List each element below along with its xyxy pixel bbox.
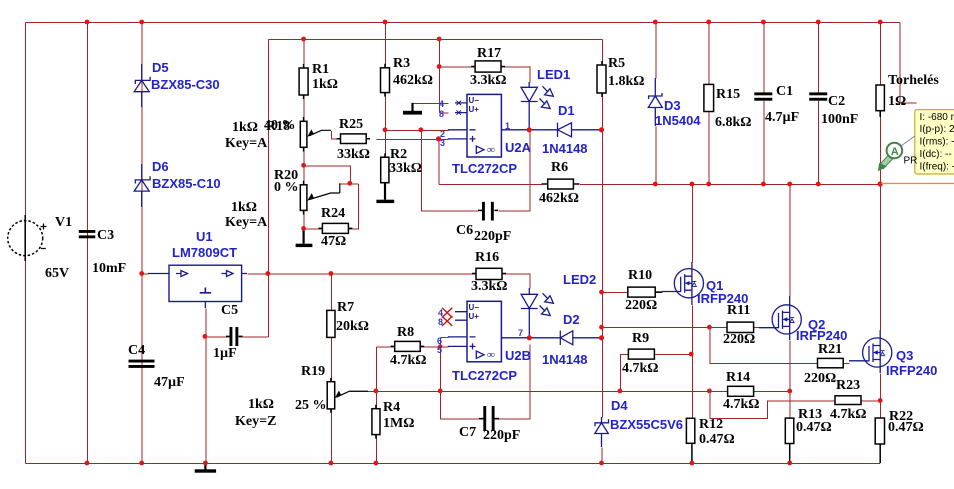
op-amp U2B box <box>448 301 530 362</box>
wire Q3 source column <box>880 374 882 419</box>
resistor R3 <box>381 64 390 97</box>
svg-text:7: 7 <box>518 328 523 338</box>
svg-text:D3: D3 <box>664 98 681 113</box>
svg-text:Key=A: Key=A <box>225 136 268 151</box>
wire R15 column <box>708 23 710 185</box>
resistor R2 <box>381 153 389 187</box>
wire gate2 to R21 vertical <box>710 328 850 364</box>
svg-text:D5: D5 <box>152 60 169 75</box>
capacitor C4 <box>129 360 155 368</box>
capacitor C6 <box>478 202 498 221</box>
ground under R20 chain <box>296 230 313 247</box>
svg-text:220Ω: 220Ω <box>625 298 657 313</box>
diode D3 <box>648 78 662 126</box>
wire U1 ground column <box>205 309 207 464</box>
svg-text:IRFP240: IRFP240 <box>697 291 748 306</box>
svg-text:C5: C5 <box>221 303 238 318</box>
ground at U2A pin4 <box>403 103 422 115</box>
svg-text:0.47Ω: 0.47Ω <box>699 432 735 447</box>
svg-text:462kΩ: 462kΩ <box>539 191 579 206</box>
wire R23 jog <box>710 391 881 418</box>
svg-text:TLC272CP: TLC272CP <box>452 161 517 176</box>
svg-text:220Ω: 220Ω <box>804 371 836 386</box>
svg-text:R1: R1 <box>312 62 329 77</box>
wire +9V rail <box>269 39 603 41</box>
svg-text:3.3kΩ: 3.3kΩ <box>470 73 507 88</box>
resistor R21 <box>818 358 844 367</box>
wire R17 row <box>440 67 530 83</box>
svg-text:U−: U− <box>469 96 480 105</box>
resistor R1 <box>299 64 308 99</box>
svg-text:R12: R12 <box>699 417 723 432</box>
svg-text:5: 5 <box>437 345 442 355</box>
wire top right corner drop <box>900 23 917 104</box>
svg-text:LM7809CT: LM7809CT <box>172 245 237 260</box>
wire R9 left jog <box>620 355 691 392</box>
zener diode D4 <box>595 417 609 447</box>
wire R5 top drop <box>602 40 604 66</box>
svg-text:C7: C7 <box>459 425 476 440</box>
wire supply vertical to R17 and pin8 <box>439 40 441 114</box>
svg-text:0.47Ω: 0.47Ω <box>796 420 832 435</box>
wire bottom ground rail <box>26 463 881 465</box>
regulator U1 box <box>148 265 247 308</box>
wire Q2 drain column <box>789 185 791 297</box>
svg-text:220pF: 220pF <box>474 229 511 244</box>
svg-text:65V: 65V <box>45 266 69 281</box>
svg-text:1.8kΩ: 1.8kΩ <box>608 74 645 89</box>
LED1 <box>521 82 554 130</box>
svg-text:∞: ∞ <box>487 349 495 361</box>
svg-text:U1: U1 <box>196 229 213 244</box>
svg-text:R5: R5 <box>608 56 625 71</box>
wire R1 R18 R20 column <box>303 40 305 242</box>
LED2 <box>521 288 554 338</box>
svg-text:R2: R2 <box>390 147 407 162</box>
svg-text:D6: D6 <box>152 159 169 174</box>
capacitor C5 <box>226 327 243 346</box>
svg-text:R17: R17 <box>477 46 501 61</box>
svg-text:C4: C4 <box>128 343 145 358</box>
load resistor Torheles <box>876 85 884 117</box>
wire R18 wiper to R25 <box>332 131 341 139</box>
resistor R22 <box>875 418 884 463</box>
no-connect X marks U2B pins 4 8 <box>442 308 452 326</box>
op-amp U2A box <box>448 94 529 157</box>
wire top supply rail <box>26 22 901 24</box>
wire D3 bottom <box>655 127 657 185</box>
svg-text:R6: R6 <box>551 160 568 175</box>
svg-text:BZX85-C10: BZX85-C10 <box>152 176 221 191</box>
svg-text:462kΩ: 462kΩ <box>393 73 433 88</box>
svg-text:IRFP240: IRFP240 <box>796 328 847 343</box>
svg-text:R10: R10 <box>628 268 652 283</box>
svg-text:C3: C3 <box>97 228 114 243</box>
svg-text:D1: D1 <box>558 103 575 118</box>
svg-text:220Ω: 220Ω <box>723 332 755 347</box>
wire R11 row <box>602 327 760 329</box>
svg-text:4.7kΩ: 4.7kΩ <box>723 397 760 412</box>
svg-text:U2B: U2B <box>505 348 531 363</box>
svg-text:100nF: 100nF <box>821 112 858 127</box>
svg-text:U+: U+ <box>469 105 480 114</box>
wire Q1 source column <box>691 306 693 419</box>
wire R7 R19 column <box>330 274 332 464</box>
wire C6 branch <box>421 130 530 211</box>
svg-text:R24: R24 <box>321 206 345 221</box>
wire load column <box>880 23 882 185</box>
resistor R14 <box>728 386 754 396</box>
wire pin6 vertical <box>440 337 442 391</box>
svg-text:33kΩ: 33kΩ <box>389 161 422 176</box>
svg-text:V1: V1 <box>55 215 72 230</box>
resistor R17 <box>471 61 505 72</box>
svg-text:47µF: 47µF <box>154 375 185 390</box>
svg-text:1MΩ: 1MΩ <box>383 416 414 431</box>
wire pin8 stub <box>440 112 449 114</box>
svg-text:D4: D4 <box>611 398 628 413</box>
resistor R9 <box>628 349 654 359</box>
labels black <box>45 46 939 447</box>
svg-text:1µF: 1µF <box>213 346 237 361</box>
svg-text:I(p-p): 2.: I(p-p): 2. <box>920 124 954 135</box>
wire pin2 row <box>386 129 449 131</box>
wire C3 column <box>87 23 89 464</box>
svg-text:Torhelés: Torhelés <box>888 73 939 88</box>
wire D5/D6 column <box>141 23 143 464</box>
wire R3 R2 column <box>385 23 387 158</box>
resistor R24 <box>319 223 353 233</box>
svg-text:R7: R7 <box>337 300 354 315</box>
svg-text:R4: R4 <box>383 400 400 415</box>
wire pin6 stub <box>441 336 449 338</box>
svg-text:R21: R21 <box>818 342 842 357</box>
wire R25 to pin3 <box>377 138 449 140</box>
resistor R5 <box>597 61 606 97</box>
capacitor C2 <box>809 92 827 100</box>
svg-text:3.3kΩ: 3.3kΩ <box>471 279 508 294</box>
svg-text:8: 8 <box>438 317 443 327</box>
svg-text:LED2: LED2 <box>563 272 596 287</box>
resistor R13 <box>785 418 794 463</box>
svg-text:1kΩ: 1kΩ <box>232 120 258 135</box>
svg-text:R14: R14 <box>726 370 750 385</box>
zener diode D5 <box>134 64 150 107</box>
ground main bottom <box>195 463 216 473</box>
resistor R4 <box>372 405 380 439</box>
wire R8 pin5 row <box>376 346 448 348</box>
svg-text:R16: R16 <box>475 250 499 265</box>
svg-text:∞: ∞ <box>487 144 495 156</box>
resistor R6 <box>542 179 580 189</box>
wire C2 column <box>818 23 820 185</box>
wire U1 output row <box>248 274 530 289</box>
svg-text:U+: U+ <box>469 312 480 321</box>
resistor R16 <box>472 268 506 279</box>
ground under R2 <box>376 183 394 203</box>
transistor Q1 <box>662 262 704 305</box>
wire R10 row <box>602 292 663 294</box>
svg-text:I(dc): --: I(dc): -- <box>920 149 952 160</box>
diode D1 <box>529 123 601 137</box>
potentiometer R20 <box>300 181 340 215</box>
resistor R11 <box>727 322 754 332</box>
wire gate bus column <box>601 94 604 464</box>
svg-text:D2: D2 <box>563 312 580 327</box>
diode D2 <box>529 331 601 345</box>
svg-text:1kΩ: 1kΩ <box>248 397 274 412</box>
probe info box <box>915 110 954 174</box>
svg-text:4.7µF: 4.7µF <box>765 110 799 125</box>
wire R24 left lead <box>304 228 323 230</box>
svg-text:C6: C6 <box>456 223 473 238</box>
wire Q2 source column <box>789 341 791 419</box>
svg-text:BZX85-C30: BZX85-C30 <box>151 77 220 92</box>
svg-text:R3: R3 <box>393 56 410 71</box>
potentiometer R18 <box>300 117 331 152</box>
svg-text:U2A: U2A <box>505 140 532 155</box>
resistor R23 <box>835 396 861 405</box>
resistor R10 <box>628 287 662 297</box>
pin number digits <box>437 96 523 361</box>
svg-text:0.47Ω: 0.47Ω <box>888 420 924 435</box>
wire feedback row pin6 node <box>350 390 790 392</box>
wire R4 column <box>375 391 377 463</box>
svg-text:R23: R23 <box>836 378 860 393</box>
wire Q1 drain column <box>691 185 693 263</box>
svg-text:R25: R25 <box>339 117 363 132</box>
svg-text:1N4148: 1N4148 <box>542 352 588 367</box>
probe wire tan <box>881 182 954 184</box>
resistor R8 <box>391 341 425 351</box>
svg-text:I(rms): -: I(rms): - <box>920 137 954 148</box>
svg-text:4.7kΩ: 4.7kΩ <box>622 361 659 376</box>
zener diode D6 <box>134 164 150 207</box>
svg-text:4.7kΩ: 4.7kΩ <box>830 407 867 422</box>
wire C5 row <box>205 336 268 338</box>
capacitor C7 <box>479 406 499 431</box>
svg-text:R19: R19 <box>301 364 325 379</box>
svg-text:TLC272CP: TLC272CP <box>452 368 517 383</box>
wire C7 branch <box>441 345 530 420</box>
wire C1 column <box>763 23 765 185</box>
wire R24 right vertical <box>340 184 358 229</box>
wire R6 row / drain rail <box>439 184 882 186</box>
svg-text:10mF: 10mF <box>92 261 126 276</box>
svg-text:C2: C2 <box>828 94 845 109</box>
svg-text:I(freq): -: I(freq): - <box>920 161 954 172</box>
capacitor C1 <box>754 92 772 100</box>
wire U1 input stub <box>142 273 148 275</box>
resistor R7 <box>327 310 335 337</box>
svg-text:40 %: 40 % <box>264 118 296 133</box>
svg-text:1N4148: 1N4148 <box>542 141 588 156</box>
svg-text:1kΩ: 1kΩ <box>231 200 257 215</box>
resistor R25 <box>337 134 371 144</box>
svg-text:8: 8 <box>439 109 444 119</box>
svg-text:1Ω: 1Ω <box>888 94 906 109</box>
wire Q3 drain column <box>880 185 882 331</box>
svg-text:4.7kΩ: 4.7kΩ <box>390 353 427 368</box>
svg-text:C1: C1 <box>776 84 793 99</box>
svg-text:R8: R8 <box>397 325 414 340</box>
svg-text:33kΩ: 33kΩ <box>337 147 370 162</box>
svg-text:6.8kΩ: 6.8kΩ <box>715 115 752 130</box>
resistor R15 <box>704 84 714 111</box>
wire left 9V drop to U1 output row <box>268 40 270 337</box>
svg-text:0 %: 0 % <box>274 180 299 195</box>
svg-text:3: 3 <box>440 138 445 148</box>
source V1 <box>8 215 47 261</box>
svg-text:I: -680 m: I: -680 m <box>920 112 954 123</box>
svg-text:Q3: Q3 <box>896 348 913 363</box>
svg-text:220pF: 220pF <box>483 428 520 443</box>
svg-text:Key=Z: Key=Z <box>235 414 276 429</box>
wire left rail with V1 <box>25 23 27 464</box>
wire R8 left vertical <box>375 347 377 392</box>
probe ammeter symbol <box>878 136 918 171</box>
potentiometer R19 <box>327 378 368 413</box>
svg-text:1N5404: 1N5404 <box>655 113 701 128</box>
svg-text:1: 1 <box>505 121 510 131</box>
svg-text:4: 4 <box>439 99 444 109</box>
wire D3 column <box>655 23 657 79</box>
resistor R12 <box>686 418 694 463</box>
svg-text:BZX55C5V6: BZX55C5V6 <box>610 417 683 432</box>
svg-text:Key=A: Key=A <box>225 215 268 230</box>
svg-text:R15: R15 <box>716 87 740 102</box>
transistor Q3 <box>849 330 892 373</box>
svg-text:PR: PR <box>904 156 918 167</box>
svg-text:R9: R9 <box>632 331 649 346</box>
svg-text:25 %: 25 % <box>295 398 327 413</box>
svg-text:LED1: LED1 <box>537 67 570 82</box>
labels blue part names <box>151 60 937 432</box>
wire pin3 node down <box>438 139 440 184</box>
capacitor C3 <box>79 230 96 238</box>
svg-text:IRFP240: IRFP240 <box>886 363 937 378</box>
svg-text:U−: U− <box>469 303 480 312</box>
wire pin4 ground row <box>413 102 448 104</box>
transistor Q2 <box>759 296 801 340</box>
wire R20 top link <box>304 166 350 184</box>
svg-text:47Ω: 47Ω <box>321 234 346 249</box>
svg-text:1kΩ: 1kΩ <box>312 77 338 92</box>
svg-text:A: A <box>891 146 899 158</box>
svg-text:20kΩ: 20kΩ <box>336 319 369 334</box>
